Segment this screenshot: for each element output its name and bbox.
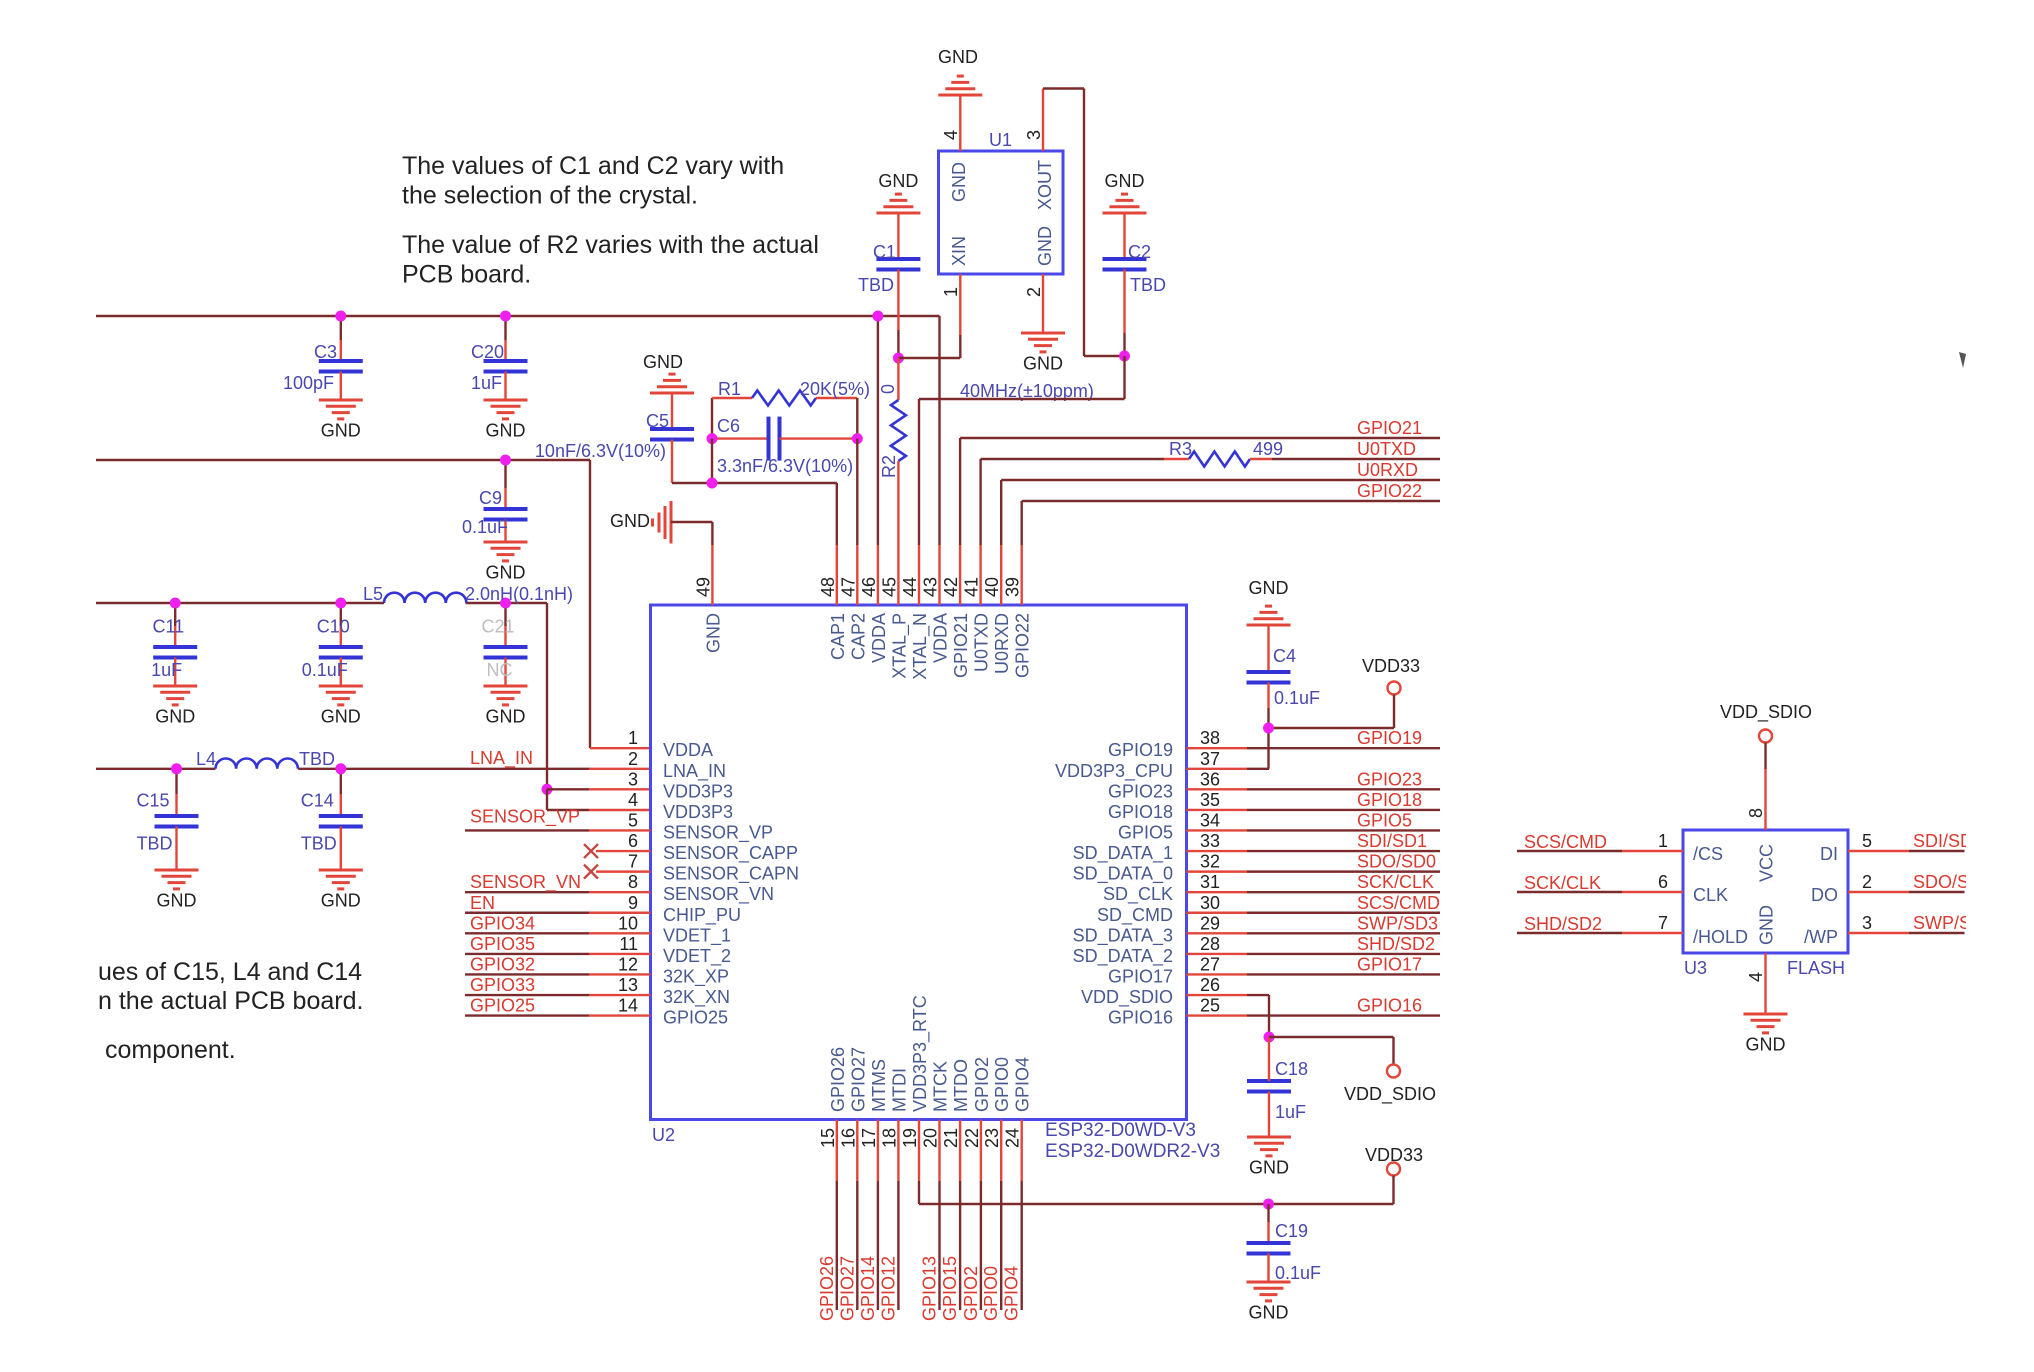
svg-text:C2: C2 bbox=[1128, 242, 1151, 262]
svg-text:35: 35 bbox=[1200, 790, 1220, 810]
net label GPIO19 bbox=[1357, 728, 1422, 748]
svg-text:GPIO2: GPIO2 bbox=[961, 1266, 981, 1321]
svg-text:VDD_SDIO: VDD_SDIO bbox=[1720, 702, 1812, 723]
junction node bbox=[171, 763, 182, 774]
svg-text:CAP2: CAP2 bbox=[848, 613, 868, 660]
svg-text:VDDA: VDDA bbox=[663, 740, 713, 760]
svg-text:GPIO25: GPIO25 bbox=[470, 996, 535, 1016]
svg-text:17: 17 bbox=[859, 1128, 879, 1148]
U2 pin 48 CAP1 bbox=[818, 545, 848, 660]
svg-text:U3: U3 bbox=[1684, 958, 1707, 978]
svg-text:0.1uF: 0.1uF bbox=[1275, 1263, 1321, 1283]
junction node bbox=[500, 311, 511, 322]
resistor R2 0 ohm bbox=[878, 358, 906, 545]
svg-text:GPIO0: GPIO0 bbox=[981, 1266, 1001, 1321]
svg-text:VDET_2: VDET_2 bbox=[663, 946, 731, 967]
svg-text:VDD3P3_RTC: VDD3P3_RTC bbox=[910, 995, 931, 1112]
wire GND to pin 49 bbox=[671, 522, 712, 545]
svg-text:10nF/6.3V(10%): 10nF/6.3V(10%) bbox=[535, 441, 666, 461]
svg-text:TBD: TBD bbox=[1130, 275, 1166, 295]
svg-text:27: 27 bbox=[1200, 954, 1220, 974]
net label SHD/SD2 bbox=[1357, 934, 1435, 954]
U2 pin 9 CHIP_PU bbox=[628, 893, 741, 926]
svg-text:1: 1 bbox=[1658, 831, 1668, 851]
svg-text:GPIO4: GPIO4 bbox=[1013, 1057, 1033, 1112]
svg-text:GPIO26: GPIO26 bbox=[817, 1256, 837, 1321]
inductor L5 2.0nH(0.1nH) bbox=[363, 584, 573, 604]
wire XIN node to U1 pin1 bbox=[898, 335, 960, 358]
svg-text:GND: GND bbox=[1249, 1303, 1289, 1323]
svg-text:48: 48 bbox=[818, 577, 838, 597]
U2 pin 39 GPIO22 bbox=[1003, 545, 1033, 678]
svg-text:SD_DATA_1: SD_DATA_1 bbox=[1073, 843, 1173, 864]
U1 pin 2 stub bbox=[1024, 274, 1044, 333]
svg-text:MTCK: MTCK bbox=[931, 1061, 951, 1112]
svg-text:XTAL_N: XTAL_N bbox=[910, 613, 931, 680]
U2 pin 15 GPIO26 bbox=[818, 1047, 848, 1181]
svg-text:1: 1 bbox=[941, 287, 961, 297]
svg-text:GPIO23: GPIO23 bbox=[1108, 781, 1173, 801]
wire XTAL_N 40MHz net bbox=[919, 356, 1125, 545]
net label GPIO35 bbox=[470, 934, 535, 954]
resistor R1 20K(5%) bbox=[712, 379, 870, 439]
wire VDDA pin46 riser bbox=[877, 316, 879, 545]
svg-text:8: 8 bbox=[1746, 808, 1766, 818]
svg-text:U2: U2 bbox=[652, 1125, 675, 1145]
svg-text:GPIO25: GPIO25 bbox=[663, 1008, 728, 1028]
capacitor C5 10nF bbox=[535, 393, 694, 483]
svg-text:R3: R3 bbox=[1169, 439, 1192, 459]
svg-text:C20: C20 bbox=[471, 342, 504, 362]
wire bus4 LNA_IN y=769 bbox=[96, 768, 651, 770]
svg-text:U1: U1 bbox=[989, 130, 1012, 150]
svg-text:22: 22 bbox=[962, 1128, 982, 1148]
U2 pin 28 SD_DATA_2 bbox=[1073, 934, 1220, 967]
U3 pin 3 wire + net SWP/SD3 bbox=[1848, 913, 1994, 933]
svg-text:GPIO19: GPIO19 bbox=[1357, 728, 1422, 748]
U2 pin 40 U0RXD bbox=[982, 545, 1012, 674]
svg-text:GPIO16: GPIO16 bbox=[1357, 996, 1422, 1016]
power pin VDD_SDIO bbox=[1269, 1037, 1436, 1105]
ground under U3 bbox=[1744, 1014, 1788, 1055]
svg-text:GND: GND bbox=[1023, 354, 1063, 374]
svg-text:DI: DI bbox=[1820, 844, 1838, 864]
svg-text:GND: GND bbox=[1105, 171, 1145, 191]
capacitor C6 3.3nF bbox=[712, 416, 857, 476]
svg-text:XTAL_P: XTAL_P bbox=[889, 613, 910, 679]
ground under C20 bbox=[484, 400, 528, 441]
svg-text:GND: GND bbox=[878, 171, 918, 191]
capacitor C10 0.1uF bbox=[302, 603, 363, 686]
svg-text:n the actual PCB board.: n the actual PCB board. bbox=[98, 987, 363, 1015]
svg-text:ues of C15, L4 and C14: ues of C15, L4 and C14 bbox=[98, 958, 362, 986]
net label GPIO14 bbox=[858, 1256, 878, 1321]
U2 pin 49 GND bbox=[693, 545, 723, 653]
svg-text:SWP/SD3: SWP/SD3 bbox=[1357, 913, 1438, 933]
svg-text:1uF: 1uF bbox=[151, 660, 182, 680]
svg-text:The value of R2 varies with th: The value of R2 varies with the actual bbox=[402, 231, 819, 259]
svg-text:C11: C11 bbox=[153, 617, 185, 637]
capacitor C21 NC bbox=[481, 603, 527, 686]
svg-text:3: 3 bbox=[628, 769, 638, 789]
svg-text:ESP32-D0WDR2-V3: ESP32-D0WDR2-V3 bbox=[1045, 1141, 1220, 1162]
flash chip U3 bbox=[1683, 830, 1848, 978]
svg-text:GND: GND bbox=[1746, 1035, 1786, 1055]
svg-text:GPIO33: GPIO33 bbox=[470, 975, 535, 995]
net label GPIO17 bbox=[1357, 954, 1422, 974]
svg-text:33: 33 bbox=[1200, 831, 1220, 851]
U2 pin 24 GPIO4 bbox=[1003, 1057, 1033, 1181]
svg-text:EN: EN bbox=[470, 893, 495, 913]
U2 pin 4 VDD3P3 bbox=[628, 790, 733, 822]
U2 pin 29 SD_DATA_3 bbox=[1073, 913, 1220, 946]
ground under C15 bbox=[155, 870, 199, 911]
svg-text:47: 47 bbox=[838, 577, 858, 597]
svg-text:4: 4 bbox=[628, 790, 638, 810]
svg-text:41: 41 bbox=[962, 577, 982, 597]
svg-text:GPIO22: GPIO22 bbox=[1013, 613, 1033, 678]
power pin VDD33 bottom bbox=[1365, 1145, 1423, 1204]
ground under C19 bbox=[1247, 1282, 1291, 1323]
net label LNA_IN bbox=[470, 748, 533, 769]
svg-text:DO: DO bbox=[1811, 885, 1838, 905]
svg-text:8: 8 bbox=[628, 872, 638, 892]
svg-text:39: 39 bbox=[1003, 577, 1023, 597]
svg-text:VDD3P3: VDD3P3 bbox=[663, 781, 733, 801]
svg-text:VCC: VCC bbox=[1757, 844, 1777, 882]
svg-text:20: 20 bbox=[921, 1128, 941, 1148]
svg-text:SDO/SD0: SDO/SD0 bbox=[1357, 852, 1436, 872]
svg-text:C18: C18 bbox=[1275, 1059, 1308, 1079]
svg-text:GND: GND bbox=[949, 162, 969, 202]
svg-text:38: 38 bbox=[1200, 728, 1220, 748]
svg-text:TBD: TBD bbox=[137, 833, 173, 853]
svg-text:XOUT: XOUT bbox=[1035, 160, 1055, 210]
net label GPIO26 bbox=[817, 1256, 837, 1321]
note text about C1 C2 bbox=[402, 152, 784, 209]
no-connect X pin7 bbox=[584, 865, 598, 879]
svg-text:1: 1 bbox=[628, 728, 638, 748]
svg-text:GND: GND bbox=[155, 707, 195, 727]
svg-text:SENSOR_CAPP: SENSOR_CAPP bbox=[663, 843, 798, 864]
net label GPIO12 bbox=[878, 1256, 898, 1321]
U2 pin 22 GPIO2 bbox=[962, 1057, 992, 1181]
svg-text:CHIP_PU: CHIP_PU bbox=[663, 905, 741, 926]
svg-text:19: 19 bbox=[900, 1128, 920, 1148]
ground under U1 pin 2 bbox=[1021, 333, 1065, 374]
U2 right pin wires bbox=[1187, 748, 1441, 1015]
svg-text:SD_DATA_0: SD_DATA_0 bbox=[1073, 864, 1173, 885]
junction node bbox=[500, 598, 511, 609]
net label GPIO25 bbox=[470, 996, 535, 1016]
svg-text:L4: L4 bbox=[196, 749, 216, 769]
wire pin3 VDD3P3 branch bbox=[547, 789, 651, 810]
svg-text:2: 2 bbox=[628, 749, 638, 769]
wire C6 left leg to rail bbox=[711, 439, 713, 483]
svg-text:VDET_1: VDET_1 bbox=[663, 925, 731, 946]
svg-text:GPIO16: GPIO16 bbox=[1108, 1008, 1173, 1028]
wire VDD3P3_RTC pin19 to VDD33 bbox=[919, 1181, 1394, 1204]
net label SDI/SD1 bbox=[1357, 831, 1427, 851]
net label SCK/CLK bbox=[1357, 872, 1434, 892]
wire net U0RXD bbox=[1001, 460, 1440, 545]
junction node bbox=[335, 763, 346, 774]
capacitor C11 1uF bbox=[151, 603, 197, 686]
svg-text:24: 24 bbox=[1003, 1128, 1023, 1148]
U2 pin 25 GPIO16 bbox=[1108, 996, 1220, 1028]
svg-text:GND: GND bbox=[610, 511, 650, 531]
junction node bbox=[170, 598, 181, 609]
svg-text:13: 13 bbox=[618, 975, 638, 995]
svg-text:R2: R2 bbox=[879, 455, 899, 478]
svg-text:GND: GND bbox=[321, 891, 361, 911]
net label GPIO15 bbox=[940, 1256, 960, 1321]
svg-text:SCK/CLK: SCK/CLK bbox=[1524, 873, 1601, 893]
svg-text:LNA_IN: LNA_IN bbox=[663, 761, 726, 782]
svg-text:GPIO35: GPIO35 bbox=[470, 934, 535, 954]
svg-text:28: 28 bbox=[1200, 934, 1220, 954]
ground under C10 bbox=[319, 686, 363, 727]
capacitor C19 0.1uF bbox=[1247, 1204, 1322, 1283]
svg-text:10: 10 bbox=[618, 913, 638, 933]
svg-text:VDD33: VDD33 bbox=[1362, 656, 1420, 676]
svg-text:GPIO5: GPIO5 bbox=[1118, 822, 1173, 842]
U3 pin 6 wire + net SCK/CLK bbox=[1517, 872, 1683, 893]
ground under C3 bbox=[319, 400, 363, 441]
svg-text:1uF: 1uF bbox=[471, 373, 502, 393]
svg-text:32: 32 bbox=[1200, 852, 1220, 872]
net label GPIO32 bbox=[470, 954, 535, 974]
U2 pin 32 SD_DATA_0 bbox=[1073, 852, 1220, 885]
U2 pin 3 VDD3P3 bbox=[628, 769, 733, 801]
svg-text:GND: GND bbox=[486, 707, 526, 727]
svg-text:42: 42 bbox=[941, 577, 961, 597]
svg-text:ESP32-D0WD-V3: ESP32-D0WD-V3 bbox=[1045, 1120, 1196, 1141]
svg-text:GND: GND bbox=[486, 563, 526, 583]
wire pin26 VDD_SDIO to C18 bbox=[1268, 995, 1270, 1037]
ground sideways for pin 49 bbox=[610, 501, 671, 544]
net label GPIO18 bbox=[1357, 790, 1422, 810]
svg-text:7: 7 bbox=[1658, 913, 1668, 933]
svg-text:SD_CMD: SD_CMD bbox=[1097, 905, 1173, 926]
svg-text:C15: C15 bbox=[136, 791, 169, 811]
U2 pin 42 GPIO21 bbox=[941, 545, 971, 678]
net label SWP/SD3 bbox=[1357, 913, 1438, 933]
U2 pin 23 GPIO0 bbox=[982, 1057, 1012, 1181]
junction node bbox=[1263, 1199, 1274, 1210]
svg-text:/CS: /CS bbox=[1693, 844, 1723, 864]
U1 pin 3 stub and wire to C2 node bbox=[1024, 89, 1125, 357]
net label GPIO16 bbox=[1357, 996, 1422, 1016]
svg-text:C5: C5 bbox=[646, 411, 669, 431]
svg-text:LNA_IN: LNA_IN bbox=[470, 748, 533, 769]
ground above U1 pin 4 bbox=[938, 47, 982, 95]
svg-text:4: 4 bbox=[941, 130, 961, 140]
capacitor C4 0.1uF bbox=[1247, 625, 1321, 728]
U2 pin 11 VDET_2 bbox=[619, 934, 731, 967]
svg-text:GPIO27: GPIO27 bbox=[837, 1256, 857, 1321]
svg-text:FLASH: FLASH bbox=[1787, 958, 1845, 978]
svg-text:GPIO34: GPIO34 bbox=[470, 913, 535, 933]
junction node bbox=[335, 598, 346, 609]
svg-text:SD_DATA_2: SD_DATA_2 bbox=[1073, 946, 1173, 967]
svg-text:GND: GND bbox=[1757, 905, 1777, 945]
U2 pin 26 VDD_SDIO bbox=[1081, 975, 1220, 1008]
svg-text:14: 14 bbox=[618, 996, 638, 1016]
svg-text:C19: C19 bbox=[1275, 1221, 1308, 1241]
svg-text:SDI/SD1: SDI/SD1 bbox=[1357, 831, 1427, 851]
svg-text:GND: GND bbox=[486, 421, 526, 441]
junction node bbox=[1264, 1032, 1275, 1043]
svg-text:15: 15 bbox=[818, 1128, 838, 1148]
junction node bbox=[1263, 723, 1274, 734]
U3 pin 2 wire + net SDO/SD0 bbox=[1848, 872, 1992, 892]
svg-text:2: 2 bbox=[1024, 287, 1044, 297]
capacitor C14 TBD bbox=[301, 769, 363, 870]
svg-text:GND: GND bbox=[1035, 226, 1055, 266]
U2 pin 30 SD_CMD bbox=[1097, 893, 1220, 926]
wire VDD33 bus1 y=316 bbox=[96, 316, 940, 545]
svg-text:VDD_SDIO: VDD_SDIO bbox=[1344, 1084, 1436, 1105]
svg-text:GPIO4: GPIO4 bbox=[1002, 1266, 1022, 1321]
svg-text:The values of C1 and C2 vary w: The values of C1 and C2 vary with bbox=[402, 152, 784, 180]
svg-text:GND: GND bbox=[1249, 578, 1289, 598]
svg-text:U0TXD: U0TXD bbox=[1357, 439, 1416, 459]
svg-text:46: 46 bbox=[859, 577, 879, 597]
svg-text:4: 4 bbox=[1746, 972, 1766, 982]
svg-text:C3: C3 bbox=[314, 342, 337, 362]
svg-text:VDD33: VDD33 bbox=[1365, 1145, 1423, 1165]
svg-text:C4: C4 bbox=[1273, 646, 1296, 666]
U2 pin 18 MTDI bbox=[879, 1068, 909, 1181]
svg-text:GPIO0: GPIO0 bbox=[992, 1057, 1012, 1112]
U2 pin 44 XTAL_N bbox=[900, 545, 931, 680]
svg-text:5: 5 bbox=[1862, 831, 1872, 851]
svg-text:TBD: TBD bbox=[301, 833, 337, 853]
U2 pin 35 GPIO18 bbox=[1108, 790, 1220, 822]
U2 pin 36 GPIO23 bbox=[1108, 769, 1220, 801]
wire bus2 y=460 to pin1 VDDA bbox=[96, 460, 651, 748]
svg-text:XIN: XIN bbox=[949, 236, 969, 266]
svg-text:12: 12 bbox=[618, 954, 638, 974]
U2 pin 2 LNA_IN bbox=[628, 749, 726, 782]
svg-text:3: 3 bbox=[1862, 913, 1872, 933]
wire net GPIO22 bbox=[1022, 481, 1440, 545]
svg-text:21: 21 bbox=[941, 1128, 961, 1148]
svg-text:R1: R1 bbox=[718, 379, 741, 399]
svg-text:GPIO13: GPIO13 bbox=[920, 1256, 940, 1321]
ground under C9 bbox=[484, 542, 528, 583]
svg-text:PCB board.: PCB board. bbox=[402, 261, 531, 289]
U2 pin 10 VDET_1 bbox=[618, 913, 731, 946]
svg-text:SCK/CLK: SCK/CLK bbox=[1357, 872, 1434, 892]
svg-text:31: 31 bbox=[1200, 872, 1220, 892]
U1 crystal value 40MHz bbox=[960, 381, 1094, 401]
svg-text:30: 30 bbox=[1200, 893, 1220, 913]
svg-text:2: 2 bbox=[1862, 872, 1872, 892]
svg-text:SCS/CMD: SCS/CMD bbox=[1357, 893, 1440, 913]
svg-text:GPIO18: GPIO18 bbox=[1108, 802, 1173, 822]
note text about C15 L4 C14 (cut off at left) bbox=[98, 958, 363, 1015]
svg-text:499: 499 bbox=[1253, 439, 1283, 459]
net label GPIO34 bbox=[470, 913, 535, 933]
svg-text:GPIO12: GPIO12 bbox=[878, 1256, 898, 1321]
svg-text:GPIO23: GPIO23 bbox=[1357, 769, 1422, 789]
ground above C2 bbox=[1103, 171, 1147, 213]
net label SENSOR_VP bbox=[470, 806, 580, 827]
svg-text:44: 44 bbox=[900, 577, 920, 597]
svg-text:SHD/SD2: SHD/SD2 bbox=[1524, 914, 1602, 934]
svg-text:GND: GND bbox=[643, 352, 683, 372]
svg-text:11: 11 bbox=[619, 934, 638, 954]
U2 pin 5 SENSOR_VP bbox=[628, 810, 773, 843]
net label GPIO23 bbox=[1357, 769, 1422, 789]
U3 pin 5 wire + net SDI/SD1 bbox=[1848, 831, 1983, 851]
ground above C5 bbox=[643, 352, 694, 393]
junction node bbox=[500, 455, 511, 466]
U2 bottom pin wires bbox=[837, 1181, 1022, 1310]
svg-text:SENSOR_VN: SENSOR_VN bbox=[470, 872, 581, 893]
svg-text:25: 25 bbox=[1200, 996, 1220, 1016]
U2 pin 14 GPIO25 bbox=[618, 996, 728, 1028]
no-connect X pin6 bbox=[584, 844, 598, 858]
U2 pin 17 MTMS bbox=[859, 1059, 889, 1181]
ground under C14 bbox=[319, 870, 363, 911]
svg-text:L5: L5 bbox=[363, 584, 383, 604]
power pin VDD_SDIO for U3 bbox=[1720, 702, 1812, 830]
svg-text:VDD_SDIO: VDD_SDIO bbox=[1081, 987, 1173, 1008]
svg-text:0.1uF: 0.1uF bbox=[1274, 688, 1320, 708]
svg-text:26: 26 bbox=[1200, 975, 1220, 995]
U1 pin 4 stub bbox=[941, 95, 961, 151]
svg-text:20K(5%): 20K(5%) bbox=[800, 379, 870, 399]
svg-text:3.3nF/6.3V(10%): 3.3nF/6.3V(10%) bbox=[717, 456, 853, 476]
svg-text:MTDI: MTDI bbox=[889, 1068, 909, 1112]
svg-text:C14: C14 bbox=[301, 791, 334, 811]
U3 pin 1 wire + net SCS/CMD bbox=[1517, 831, 1683, 852]
wire net GPIO21 bbox=[960, 418, 1440, 545]
U2 pin 13 32K_XN bbox=[618, 975, 730, 1008]
svg-text:/HOLD: /HOLD bbox=[1693, 927, 1748, 947]
svg-text:SD_CLK: SD_CLK bbox=[1103, 884, 1173, 905]
svg-text:GPIO18: GPIO18 bbox=[1357, 790, 1422, 810]
svg-text:5: 5 bbox=[628, 810, 638, 830]
net label GPIO27 bbox=[837, 1256, 857, 1321]
svg-text:U0TXD: U0TXD bbox=[972, 613, 992, 672]
capacitor C18 1uF bbox=[1247, 1037, 1308, 1137]
svg-text:TBD: TBD bbox=[299, 749, 335, 769]
svg-text:32K_XN: 32K_XN bbox=[663, 987, 730, 1008]
svg-text:C1: C1 bbox=[873, 242, 896, 262]
U2 pin 38 GPIO19 bbox=[1108, 728, 1220, 760]
U2 pin 33 SD_DATA_1 bbox=[1073, 831, 1220, 864]
svg-text:2.0nH(0.1nH): 2.0nH(0.1nH) bbox=[465, 584, 573, 604]
svg-text:MTMS: MTMS bbox=[869, 1059, 889, 1112]
svg-text:9: 9 bbox=[628, 893, 638, 913]
U2 pin 12 32K_XP bbox=[618, 954, 729, 987]
svg-text:40: 40 bbox=[982, 577, 1002, 597]
svg-text:GND: GND bbox=[321, 421, 361, 441]
U2 pin 21 MTDO bbox=[941, 1059, 971, 1181]
svg-text:6: 6 bbox=[1658, 872, 1668, 892]
U2 pin 8 SENSOR_VN bbox=[628, 872, 774, 905]
svg-text:7: 7 bbox=[628, 852, 638, 872]
svg-text:GPIO21: GPIO21 bbox=[951, 613, 971, 678]
U2 pin 46 VDDA bbox=[859, 545, 889, 663]
svg-text:the selection of the crystal.: the selection of the crystal. bbox=[402, 181, 698, 209]
svg-text:TBD: TBD bbox=[858, 275, 894, 295]
svg-text:0.1uF: 0.1uF bbox=[462, 517, 508, 537]
